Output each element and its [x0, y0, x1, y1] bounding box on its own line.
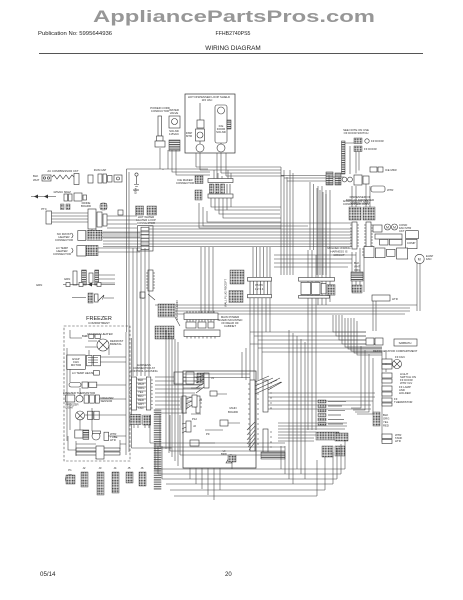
right center connector cluster — [299, 278, 336, 299]
connector row sym 6 — [139, 466, 146, 486]
hot dispenser loop shield box U1 — [185, 94, 235, 153]
note label top right — [343, 128, 369, 135]
filter cap block — [74, 168, 122, 185]
lo temp heater connector — [72, 245, 141, 256]
svg-text:J6: J6 — [141, 466, 144, 470]
cabinet ground wire row — [36, 283, 115, 288]
svg-text:HOLDER: HOLDER — [399, 391, 411, 395]
no frost heater label — [55, 232, 73, 242]
fan comb strip a — [350, 222, 359, 249]
water valve sym right — [382, 355, 405, 369]
freezer exit wires bottom — [132, 415, 286, 455]
bottom right hatch sq — [322, 446, 345, 457]
drop to bottom loops — [155, 330, 178, 479]
wires from door switches — [342, 141, 359, 174]
right comp d — [382, 433, 402, 444]
fan comb strip b — [364, 222, 373, 249]
svg-text:WTR: WTR — [387, 188, 393, 192]
wires heading right from box — [196, 167, 329, 181]
vertical bundle from ice bus — [281, 167, 293, 275]
svg-text:LO TEMP HEATER: LO TEMP HEATER — [72, 371, 96, 375]
right half horizontals — [274, 255, 356, 267]
svg-text:COMP: COMP — [407, 241, 416, 245]
svg-text:P9: P9 — [206, 432, 210, 436]
dispenser label — [346, 195, 374, 205]
run capacitor C1 — [61, 204, 71, 210]
mid right comb connector — [351, 272, 363, 281]
harness horizontals to sockets — [278, 423, 347, 441]
svg-text:RUN CAP: RUN CAP — [94, 168, 107, 172]
ice maker hatch left b — [195, 190, 202, 200]
center text column — [224, 279, 228, 307]
svg-text:PTC: PTC — [41, 207, 47, 211]
vertical drop from strips — [134, 425, 149, 428]
svg-text:20: 20 — [225, 572, 232, 578]
board pin header P2 — [186, 395, 202, 409]
board pin header P3 — [182, 421, 196, 433]
no frost heater connector — [72, 230, 141, 240]
AC line connector block — [138, 226, 154, 251]
bottom bus right verticals — [317, 440, 345, 496]
right comp c — [382, 397, 412, 406]
fan connector hatch b — [363, 207, 375, 220]
svg-text:J5: J5 — [128, 466, 131, 470]
svg-text:J2: J2 — [83, 466, 86, 470]
svg-text:FAN: FAN — [426, 257, 431, 261]
ground clip row 4 — [140, 270, 155, 300]
vertical bundle left of center — [133, 248, 149, 376]
vertical bundle right of center — [308, 182, 316, 430]
wires freezer to center strips — [137, 379, 147, 407]
wires compressor to bus — [92, 216, 137, 238]
power connector pair — [64, 193, 87, 201]
compressor connector — [88, 209, 123, 229]
lo temp heater label — [53, 246, 71, 256]
right area verticals — [317, 188, 326, 275]
svg-text:05/14: 05/14 — [40, 571, 56, 578]
power cord strain column — [64, 270, 115, 285]
top left row label — [33, 169, 79, 182]
svg-text:GRN: GRN — [134, 188, 138, 194]
horizontal bus y305-315 — [155, 305, 417, 314]
mullion heater row connector — [326, 172, 341, 185]
svg-text:COMPARTMENT: COMPARTMENT — [88, 321, 110, 325]
svg-text:J3: J3 — [99, 466, 102, 470]
svg-text:AC COMPRESSOR CKT: AC COMPRESSOR CKT — [47, 169, 79, 173]
svg-text:TAN: TAN — [138, 406, 143, 410]
connector row sym 2 — [81, 466, 88, 487]
svg-text:REFRIGERATOR COMPARTMENT: REFRIGERATOR COMPARTMENT — [373, 349, 418, 353]
nested loop drops — [242, 332, 382, 414]
svg-text:CONDENSER FANS: CONDENSER FANS — [343, 202, 369, 206]
evap fan motor M2 — [362, 247, 433, 264]
connector row sym 3 — [97, 466, 104, 495]
connector row sym 4 — [112, 466, 119, 493]
bottom bus connect verticals — [281, 330, 305, 484]
wires bus to door area — [318, 175, 370, 305]
fan label right — [343, 199, 369, 206]
central strip label — [130, 363, 157, 373]
wires through board top — [183, 374, 250, 388]
ground strap cluster — [72, 293, 114, 303]
svg-text:P1: P1 — [68, 468, 72, 472]
svg-text:BOARD: BOARD — [228, 410, 238, 414]
svg-text:ORG: ORG — [354, 268, 360, 272]
antenna ground symbol — [133, 173, 139, 192]
svg-text:J1: J1 — [211, 376, 214, 380]
board pin header P1 — [196, 373, 214, 393]
mullion heater — [370, 167, 397, 192]
line filter resistor R1 — [52, 175, 77, 179]
right comp a — [382, 372, 416, 385]
right lower boxes row — [366, 338, 417, 346]
svg-text:MOTOR: MOTOR — [71, 363, 81, 367]
svg-text:WALL PLUG RECEPT: WALL PLUG RECEPT — [224, 279, 228, 307]
svg-text:CONDUCTOR: CONDUCTOR — [151, 109, 169, 113]
svg-text:FZ DOOR: FZ DOOR — [371, 139, 384, 143]
diagonal fan from board strip — [247, 422, 255, 450]
svg-text:115 VAC: 115 VAC — [202, 98, 213, 102]
svg-text:J4: J4 — [114, 466, 117, 470]
wires below ice connector — [211, 198, 281, 218]
svg-text:BIMETAL: BIMETAL — [110, 342, 122, 346]
ice maker module — [75, 430, 118, 442]
svg-text:BRD: BRD — [221, 452, 227, 456]
lower harness hatch blocks — [130, 415, 151, 426]
board right connector strip long — [248, 380, 259, 451]
central harness strip a — [130, 377, 137, 410]
auger motor — [215, 105, 231, 152]
board bottom triangle — [226, 453, 233, 463]
svg-text:M: M — [386, 226, 389, 230]
right comp b — [382, 385, 411, 396]
svg-text:OF DOOR SWITCH: OF DOOR SWITCH — [344, 131, 369, 135]
board bottom drops — [190, 468, 220, 500]
socket b — [335, 433, 348, 441]
svg-text:WHT: WHT — [33, 178, 40, 182]
svg-text:M: M — [418, 258, 421, 262]
svg-text:115VAC 60HZ: 115VAC 60HZ — [53, 190, 71, 194]
power cord conductor — [150, 106, 170, 147]
freezer thermistor — [66, 395, 114, 403]
svg-text:GRN: GRN — [64, 277, 70, 281]
svg-text:FF FAN: FF FAN — [395, 355, 405, 359]
freezer sensor oval — [69, 382, 97, 388]
terminal list rows — [318, 400, 346, 426]
diode board label — [81, 201, 91, 208]
fan connector hatch a — [349, 207, 361, 220]
board right comb lower — [263, 429, 272, 453]
svg-text:SABBATH: SABBATH — [399, 341, 412, 345]
mid bus y377-413 — [155, 377, 204, 413]
water inlet valve — [169, 108, 180, 151]
svg-text:115VAC: 115VAC — [169, 132, 179, 136]
svg-text:AppliancePartsPros.com: AppliancePartsPros.com — [93, 7, 375, 26]
water valve connector box — [327, 246, 350, 257]
svg-text:FF DOOR: FF DOOR — [364, 147, 377, 151]
lo temp label — [72, 371, 99, 376]
timer comb — [87, 355, 101, 366]
door hinge harness comb — [342, 141, 346, 174]
compressor info box — [375, 231, 418, 249]
lower left connector row — [184, 311, 220, 339]
svg-text:Publication No: 5995644936: Publication No: 5995644936 — [38, 31, 113, 37]
vertical bundle center — [250, 247, 270, 344]
central harness strip b — [146, 377, 153, 410]
mullion circuit contacts — [342, 175, 369, 185]
svg-text:CONNECTOR: CONNECTOR — [176, 181, 194, 185]
wire color legend — [354, 261, 361, 272]
svg-text:ICE MKR: ICE MKR — [385, 168, 397, 172]
fan-out diagonals from board — [255, 376, 282, 394]
svg-text:HTR: HTR — [395, 439, 401, 443]
main board connector block — [248, 278, 272, 298]
dispenser solenoid — [186, 103, 205, 152]
right hatch strip — [373, 412, 380, 426]
svg-text:HTR: HTR — [110, 438, 116, 442]
svg-text:WIRING DIAGRAM: WIRING DIAGRAM — [205, 45, 260, 52]
svg-text:GRN: GRN — [36, 283, 42, 287]
svg-text:MTR: MTR — [186, 134, 192, 138]
PTC starter — [46, 211, 89, 224]
dense connector stack a — [155, 300, 180, 339]
bottom nested bus — [154, 469, 345, 496]
right feed vertical — [382, 352, 386, 442]
bottom small cluster — [221, 449, 236, 469]
connector row sym 5 — [126, 466, 133, 483]
evaporator fan motor M3 — [97, 339, 124, 351]
freezer compartment box — [64, 316, 130, 461]
svg-text:J2: J2 — [193, 424, 196, 428]
svg-text:RED: RED — [383, 424, 389, 428]
svg-text:ESCUTCHEON: ESCUTCHEON — [175, 300, 179, 320]
svg-text:HTR: HTR — [392, 297, 398, 301]
svg-text:1 2 3 4: 1 2 3 4 — [255, 287, 264, 291]
svg-text:P12: P12 — [192, 417, 197, 421]
svg-text:FFHB2740PS5: FFHB2740PS5 — [216, 31, 251, 37]
bottom horizontal comb — [261, 452, 285, 459]
mid right hatch connector — [352, 285, 362, 293]
svg-text:CONNECTOR: CONNECTOR — [55, 238, 73, 242]
harness ribbon band — [154, 409, 162, 490]
board label — [218, 315, 243, 328]
connector row sym 1 — [66, 468, 76, 484]
bottom right hatch wide — [316, 432, 339, 440]
ice maker connector J1 — [208, 179, 233, 199]
freezer internal wires — [67, 330, 132, 459]
defrost timer box — [67, 355, 86, 369]
svg-text:CABINET: CABINET — [224, 324, 236, 328]
nested right loops — [333, 315, 382, 355]
svg-text:VALVE: VALVE — [170, 111, 179, 115]
svg-text:SOLND: SOLND — [216, 130, 226, 134]
svg-text:CKT: CKT — [399, 229, 405, 233]
overload protector — [42, 175, 51, 181]
title rule — [39, 53, 423, 55]
diode component — [100, 203, 107, 210]
svg-text:CONNECTOR: CONNECTOR — [53, 252, 71, 256]
vertical bundle mid-left — [201, 247, 213, 314]
wire code column — [138, 378, 145, 410]
defrost heater element — [76, 446, 120, 459]
svg-text:THERMISTOR: THERMISTOR — [394, 400, 412, 404]
svg-text:CONTROL HOUSING: CONTROL HOUSING — [130, 369, 157, 373]
vertical feed lines mid right — [352, 248, 364, 292]
refrigerator door switch — [354, 146, 377, 152]
svg-text:BOARD: BOARD — [81, 204, 91, 208]
freezer light — [66, 403, 100, 421]
wires from dispenser box down — [196, 153, 226, 179]
board right bus — [268, 393, 375, 409]
wire bends left of bus — [199, 203, 281, 228]
svg-text:FREEZER THERMISTOR: FREEZER THERMISTOR — [63, 391, 95, 395]
defrost thermostat — [82, 334, 101, 338]
freezer door switch — [354, 138, 384, 144]
ice maker hatch left a — [195, 176, 203, 184]
center hatch connector a — [230, 270, 244, 284]
receptacle twin combs — [136, 206, 157, 225]
main horizontal bus y232-247 — [103, 232, 352, 247]
board right comb upper — [263, 380, 272, 412]
drain heater — [372, 295, 398, 301]
svg-text:J4: J4 — [199, 398, 202, 402]
main board box — [183, 371, 256, 468]
mid cluster rects — [174, 372, 205, 384]
svg-text:M: M — [393, 226, 396, 230]
right vertical drop — [373, 262, 420, 331]
power line arrows — [31, 190, 71, 199]
center hatch connector b — [229, 291, 243, 303]
svg-text:SENSOR: SENSOR — [101, 399, 113, 403]
condenser fan motor M1 — [373, 223, 411, 233]
mid comb pair — [180, 396, 202, 413]
upper bus branch — [148, 223, 352, 229]
